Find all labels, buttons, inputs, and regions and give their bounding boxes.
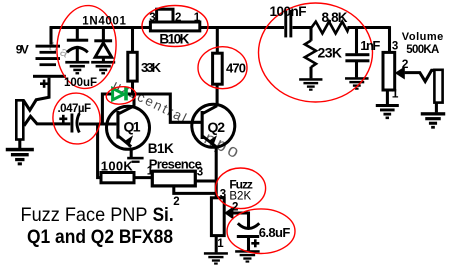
svg-text:B1K: B1K [148,141,174,156]
svg-text:Fuzz Face PNP: Fuzz Face PNP [21,204,148,226]
svg-text:9V: 9V [16,42,29,56]
svg-text:100K: 100K [101,158,134,173]
svg-text:Presence: Presence [149,157,202,172]
svg-text:33K: 33K [141,60,162,75]
svg-text:100uF: 100uF [64,77,97,89]
svg-text:Q1: Q1 [124,119,141,135]
svg-text:Q1 and Q2 BFX88: Q1 and Q2 BFX88 [27,227,173,248]
svg-text:3: 3 [149,12,155,24]
svg-text:1: 1 [194,12,201,24]
svg-text:2: 2 [175,12,181,24]
svg-text:1N4001: 1N4001 [82,16,126,28]
svg-text:2: 2 [402,57,409,71]
svg-text:Si.: Si. [153,204,174,226]
svg-text:.047µF: .047µF [58,103,92,115]
svg-text:1nF: 1nF [360,38,380,53]
svg-text:470: 470 [226,61,246,76]
svg-text:Q2: Q2 [208,119,226,135]
svg-text:2: 2 [232,202,238,214]
svg-text:1: 1 [147,166,154,178]
svg-text:23K: 23K [318,45,343,61]
svg-text:B10K: B10K [159,32,189,47]
svg-text:Volume: Volume [402,31,444,43]
svg-text:3: 3 [197,167,203,179]
svg-text:B2K: B2K [229,191,251,203]
svg-text:6.8uF: 6.8uF [259,225,291,240]
svg-text:500KA: 500KA [406,44,439,56]
svg-text:Fuzz: Fuzz [229,177,253,191]
svg-text:3: 3 [220,189,226,201]
svg-text:100nF: 100nF [270,4,307,19]
svg-text:2: 2 [173,196,179,208]
svg-text:8.8K: 8.8K [322,10,348,25]
svg-text:1: 1 [392,86,399,100]
svg-text:3: 3 [392,40,398,52]
svg-text:1: 1 [217,238,224,250]
